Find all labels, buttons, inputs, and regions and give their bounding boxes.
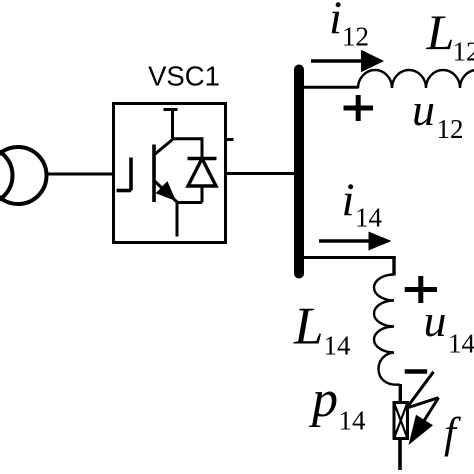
svg-text:i: i (329, 0, 342, 44)
svg-text:u: u (412, 84, 435, 135)
svg-text:14: 14 (448, 329, 474, 359)
svg-text:u: u (424, 295, 447, 346)
svg-text:14: 14 (339, 406, 367, 436)
svg-text:p: p (308, 371, 338, 428)
svg-text:L: L (293, 298, 323, 356)
svg-text:12: 12 (453, 37, 474, 67)
svg-text:VSC1: VSC1 (148, 61, 220, 92)
svg-text:i: i (342, 174, 355, 226)
svg-text:12: 12 (437, 114, 464, 144)
svg-text:L: L (426, 4, 455, 60)
svg-text:12: 12 (342, 22, 369, 52)
svg-text:14: 14 (324, 331, 352, 361)
svg-text:14: 14 (355, 203, 383, 233)
